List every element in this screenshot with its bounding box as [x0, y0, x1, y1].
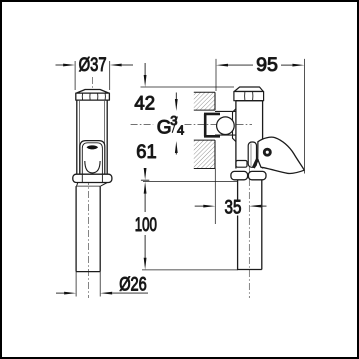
G3/4 upper arrow [175, 93, 178, 112]
left valve base flange nut [73, 174, 112, 182]
wire [56, 55, 305, 298]
right valve body [236, 101, 263, 169]
right valve top extension line [141, 86, 235, 88]
svg-text:95: 95 [256, 55, 278, 76]
wall hatch lower block [194, 140, 215, 168]
dimension Ø26 extension lines [76, 272, 100, 297]
svg-text:4: 4 [177, 123, 184, 138]
left valve push-button housing [80, 141, 105, 175]
svg-text:42: 42 [134, 94, 155, 115]
inlet sleeve (thick bordered) [204, 114, 220, 136]
extension line at outlet base [143, 180, 237, 182]
dimension 35 line and arrows [195, 205, 267, 208]
dimension 95 extension lines [216, 59, 304, 174]
svg-text:61: 61 [136, 142, 156, 163]
extension line pipe bottom [142, 269, 238, 271]
dimension 95 line and arrows [216, 64, 304, 67]
inlet union nut circle [217, 117, 235, 135]
svg-text:35: 35 [225, 198, 242, 219]
dimension 42 upper arrow (hanging) [144, 63, 147, 87]
dimension Ø26 line and arrows [56, 292, 148, 295]
right valve cap [234, 87, 264, 101]
left valve cap [76, 90, 110, 101]
inlet horizontal centerline [131, 124, 154, 126]
lever pivot boss [248, 142, 256, 167]
wall face line [214, 92, 216, 168]
left valve joint collar [77, 183, 108, 187]
dimension 100 top arrow [144, 182, 147, 194]
left valve body [77, 100, 107, 174]
left pipe [76, 186, 100, 272]
boundary tick 61/100 [141, 179, 149, 181]
svg-text:Ø26: Ø26 [119, 275, 147, 296]
dimension Ø37 extension lines [75, 61, 110, 90]
wall hatch upper block [194, 92, 215, 110]
lever pivot ring [264, 149, 270, 155]
svg-text:100: 100 [135, 215, 157, 236]
dimension 35 text [234, 200, 245, 216]
dimension 35 wall extension [214, 169, 216, 225]
right pipe centerline [248, 166, 250, 298]
left valve button dark slot [87, 145, 98, 149]
inlet pipe lines [215, 111, 236, 135]
dimension 100 lower line and arrow [144, 235, 146, 258]
lever blade [258, 137, 305, 173]
G3/4 lower arrow [175, 141, 178, 155]
inlet collar at body [233, 109, 236, 142]
right outlet hex nut [231, 171, 266, 179]
right pipe [238, 180, 262, 270]
svg-text:Ø37: Ø37 [79, 55, 107, 76]
dimension Ø37 line and arrows [56, 64, 134, 67]
G3/4 text [157, 113, 184, 139]
lever back thick edge [253, 159, 257, 168]
small detail rect on body [236, 161, 247, 168]
left valve centerline [92, 77, 94, 97]
dimension 61 bottom arrow [144, 168, 147, 180]
